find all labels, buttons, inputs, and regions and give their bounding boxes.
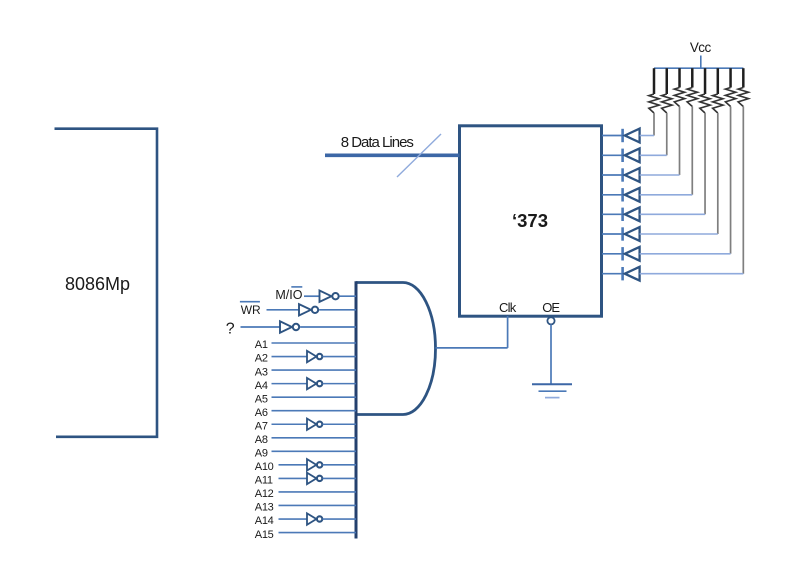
svg-text:A14: A14 [255, 515, 274, 527]
svg-text:Vcc: Vcc [690, 40, 712, 55]
svg-text:A8: A8 [255, 434, 268, 446]
svg-text:A12: A12 [255, 488, 274, 500]
svg-text:A11: A11 [255, 475, 273, 487]
svg-text:A13: A13 [255, 502, 274, 514]
svg-text:A1: A1 [255, 339, 268, 351]
svg-text:8086Mp: 8086Mp [65, 274, 130, 294]
svg-text:A9: A9 [255, 448, 268, 460]
svg-text:A7: A7 [255, 420, 268, 432]
svg-text:M/IO: M/IO [275, 288, 302, 302]
svg-text:OE: OE [542, 300, 560, 315]
svg-text:8 Data Lines: 8 Data Lines [341, 134, 414, 151]
svg-text:A5: A5 [255, 393, 268, 405]
svg-text:A2: A2 [255, 353, 268, 365]
svg-text:Clk: Clk [499, 300, 517, 315]
svg-text:?: ? [226, 321, 235, 338]
svg-text:‘373: ‘373 [512, 210, 548, 231]
svg-text:A15: A15 [255, 529, 274, 541]
svg-text:A10: A10 [255, 461, 274, 473]
svg-text:WR: WR [241, 303, 261, 317]
svg-text:A6: A6 [255, 407, 268, 419]
svg-text:A4: A4 [255, 380, 268, 392]
svg-text:A3: A3 [255, 366, 268, 378]
